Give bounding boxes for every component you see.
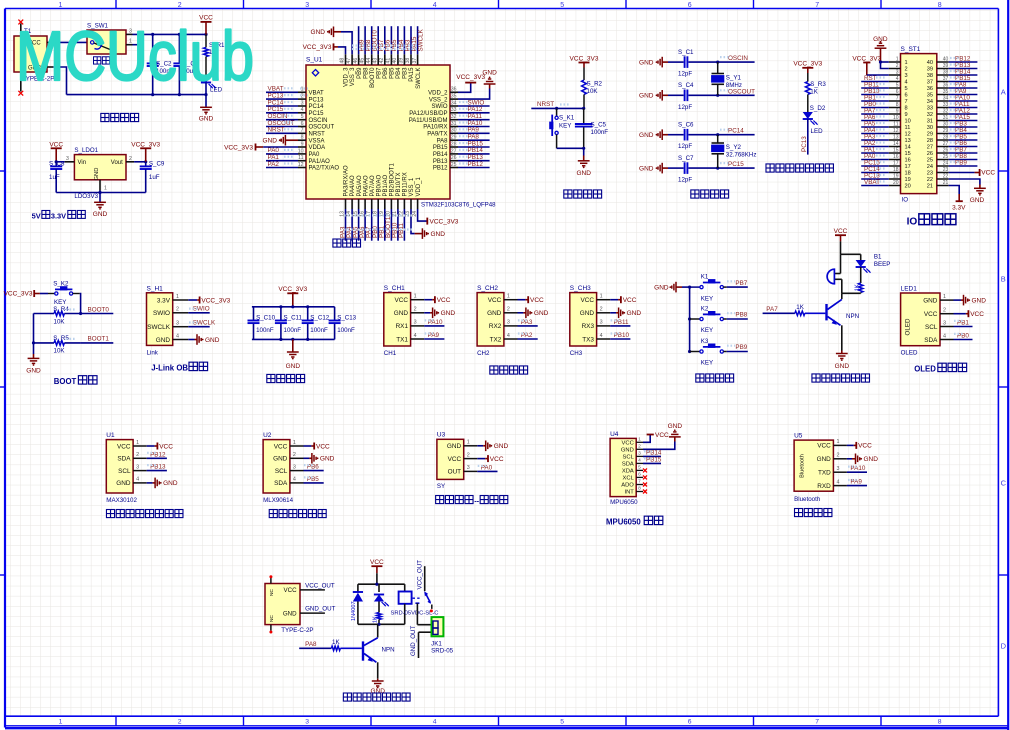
svg-text:GND: GND [431, 231, 446, 238]
svg-text:7: 7 [905, 99, 908, 105]
svg-text:22: 22 [943, 174, 949, 180]
svg-text:34: 34 [943, 96, 949, 102]
ground flag at LED1 pin 1 [954, 299, 962, 301]
svg-text:1K: 1K [810, 89, 818, 96]
wire and net label PC14 [718, 134, 755, 136]
svg-text:4: 4 [905, 80, 908, 86]
wire and net label BOOT0 at S_U1 top [371, 26, 373, 54]
wire JK1 pin2 GND_OUT [419, 631, 434, 633]
svg-text:MPU6050: MPU6050 [606, 518, 641, 527]
svg-text:33: 33 [943, 102, 949, 108]
svg-text:LDO3V3: LDO3V3 [74, 193, 98, 200]
svg-text:VCC_3V3: VCC_3V3 [224, 144, 253, 151]
pin 39 of S_ST1 [937, 68, 949, 70]
power flag VCC_3V3 at S_U1 pin 36 VDD_2 [458, 83, 471, 93]
svg-text:1: 1 [293, 440, 296, 446]
pin 18 of S_ST1 [889, 172, 901, 174]
mcu S_U1 body STM32F103C8T6 [306, 65, 450, 199]
wire relay top node [358, 583, 405, 585]
svg-text:4: 4 [414, 333, 417, 339]
svg-text:GND: GND [199, 116, 214, 123]
svg-text:29: 29 [451, 135, 457, 141]
svg-text:19: 19 [905, 177, 911, 183]
svg-text:RXD: RXD [817, 483, 831, 490]
pin 3 RX2 of S_CH2 [504, 325, 518, 327]
svg-text:PB7: PB7 [376, 67, 382, 79]
svg-text:3: 3 [837, 466, 840, 472]
svg-text:5: 5 [301, 114, 304, 120]
svg-text:VBAT: VBAT [864, 179, 880, 186]
svg-text:100nF: 100nF [256, 327, 274, 334]
svg-text:3: 3 [305, 2, 309, 9]
svg-text:XCL: XCL [623, 475, 635, 481]
pin 1 GND of LED1 [940, 299, 954, 301]
svg-text:PC14: PC14 [309, 104, 325, 110]
pin 3 OUT of U3 [464, 470, 478, 472]
svg-text:9: 9 [301, 141, 304, 147]
svg-text:48: 48 [340, 58, 346, 64]
svg-text:6: 6 [638, 472, 641, 478]
wire and net label PC15 at S_ST1 left [861, 165, 889, 167]
svg-text:38: 38 [405, 58, 411, 64]
ground flag at S_CH2 pin 2 [518, 312, 524, 314]
svg-text:--: -- [474, 497, 479, 506]
svg-text:INT: INT [624, 490, 634, 496]
wire and net label PA7 at S_U1 bottom [371, 209, 373, 241]
svg-text:VDD_2: VDD_2 [428, 91, 448, 97]
wire and net label PB1 at S_ST1 left [861, 100, 889, 102]
wire and net label PB6 at U2 pin 3 [304, 470, 324, 472]
wire and net label BOOT0 [81, 313, 114, 315]
svg-text:CH3: CH3 [570, 350, 583, 357]
wire and net label PB14 at U4 [643, 455, 661, 457]
pin 20 PB2/BOOT1 of S_U1 bottom [390, 199, 392, 209]
caption heart rate module [106, 510, 114, 518]
caption sound light alarm [812, 374, 820, 382]
wire and net label PB11 at S_ST1 left [861, 87, 889, 89]
svg-text:17: 17 [893, 161, 899, 167]
svg-text:GND_OUT: GND_OUT [305, 606, 335, 613]
svg-text:PB15: PB15 [433, 145, 448, 151]
svg-text:S_K2: S_K2 [53, 280, 69, 287]
pin 4 SDA of LED1 [940, 339, 954, 341]
svg-text:39: 39 [927, 67, 933, 73]
wire VCC to LDO Vin [56, 161, 64, 163]
connector U1 body [106, 440, 133, 493]
svg-text:13: 13 [905, 138, 911, 144]
svg-text:34: 34 [927, 99, 933, 105]
pin NC top of S_T1 [20, 24, 22, 37]
svg-text:3.3V: 3.3V [51, 211, 66, 220]
capacitor S_C3 [178, 34, 180, 63]
pin 2 GND of U4 [636, 448, 643, 450]
svg-text:MLX90614: MLX90614 [263, 497, 293, 504]
wire and net label PA10 at U5 [847, 471, 867, 473]
wire and net label PA1 at S_ST1 left [861, 152, 889, 154]
svg-text:NPN: NPN [846, 313, 859, 320]
ground flag at S_CH1 pin 2 [424, 312, 430, 314]
svg-text:41: 41 [386, 58, 392, 64]
wire and net label NRST at S_U1 left [266, 132, 298, 134]
svg-text:GND: GND [94, 168, 100, 181]
pin 24 of S_ST1 [937, 165, 949, 167]
svg-text:37: 37 [412, 58, 418, 64]
svg-text:GND: GND [441, 310, 456, 317]
svg-text:32: 32 [927, 112, 933, 118]
connector U3 body [437, 439, 464, 479]
pin 10 of S_ST1 [889, 120, 901, 122]
svg-text:S_CH1: S_CH1 [384, 285, 405, 292]
svg-text:1N4007: 1N4007 [351, 601, 357, 621]
svg-text:GND: GND [668, 423, 683, 430]
wire and net label PC13 at S_ST1 left [861, 178, 889, 180]
svg-text:5: 5 [905, 86, 908, 92]
svg-text:8: 8 [301, 135, 304, 141]
svg-text:10K: 10K [587, 88, 599, 95]
svg-text:PB14: PB14 [433, 152, 448, 158]
svg-text:2: 2 [943, 308, 946, 314]
wire and net label PB0 at LED1 [954, 339, 973, 341]
wire and net label PB10 at S_ST1 left [861, 94, 889, 96]
diode D1 1N4007 [357, 584, 359, 592]
pin 4 GND of U1 [133, 482, 147, 484]
svg-text:VCC: VCC [316, 443, 330, 450]
ground flag at U1 pin 4 [147, 482, 153, 484]
svg-text:30: 30 [943, 122, 949, 128]
pin 2 VCC of LED1 [940, 313, 954, 315]
connector S_CH2 body [477, 293, 504, 346]
svg-text:OSCIN: OSCIN [728, 55, 748, 62]
svg-text:BOOT: BOOT [54, 377, 77, 386]
ground flag at S_U1 pin 23 VSS_1 [411, 209, 415, 234]
wire relay NC contact to JK1 [415, 602, 419, 604]
wire and net label PA4 at S_ST1 left [861, 133, 889, 135]
svg-text:1: 1 [905, 60, 908, 66]
svg-text:VCC: VCC [858, 443, 872, 450]
pin 29 PA8 of S_U1 [450, 139, 458, 141]
svg-text:PA2: PA2 [268, 161, 280, 168]
svg-text:VSS_2: VSS_2 [429, 97, 448, 103]
svg-text:VCC_OUT: VCC_OUT [305, 582, 335, 589]
wire S_T1 GND to bottom rail [53, 67, 66, 95]
pin 19 PB1/AO of S_U1 bottom [384, 199, 386, 209]
svg-text:5V: 5V [32, 211, 41, 220]
svg-text:OSCIN: OSCIN [309, 118, 328, 124]
svg-text:7: 7 [638, 479, 641, 485]
wire and net label PA4 at S_U1 bottom [351, 209, 353, 241]
pin 31 PA10/RX of S_U1 [450, 126, 458, 128]
svg-text:PC14: PC14 [728, 128, 744, 135]
svg-text:4: 4 [638, 458, 641, 464]
pin 8 VSSA of S_U1 [298, 139, 306, 141]
wire and net label PA10 at S_ST1 right [949, 100, 978, 102]
pin 27 PB14 of S_U1 [450, 153, 458, 155]
pin 40 of S_ST1 [937, 61, 949, 63]
pin 3 SCL of LED1 [940, 326, 954, 328]
svg-text:2: 2 [136, 452, 139, 458]
pin 3 RX1 of S_CH1 [411, 325, 425, 327]
svg-text:SWCLK: SWCLK [417, 28, 424, 51]
pin 1 VCC of S_CH1 [411, 299, 425, 301]
resistor S_R2 [582, 80, 587, 95]
svg-text:31: 31 [943, 115, 949, 121]
wire and net label PA10 at S_U1 right [458, 126, 490, 128]
svg-text:12pF: 12pF [678, 71, 692, 78]
pin 46 PB9 of S_U1 top [358, 54, 360, 65]
svg-text:SDA: SDA [622, 461, 634, 467]
wire and net label PB10 at S_U1 bottom [397, 209, 399, 241]
svg-text:GND: GND [627, 310, 642, 317]
svg-text:GND: GND [580, 310, 595, 317]
capacitor S_C11 100nF [280, 307, 282, 320]
svg-text:Link: Link [147, 349, 159, 356]
pin 1 of S_LDO1 [99, 180, 101, 191]
svg-text:35: 35 [927, 93, 933, 99]
pin 1 of S_ST1 [889, 61, 901, 63]
pin 14 of S_ST1 [889, 146, 901, 148]
pin 18 PB0/AO of S_U1 bottom [377, 199, 379, 209]
wire and net label PA3 at S_U1 bottom [345, 209, 347, 241]
pin 7 ADO of U4 [636, 484, 643, 486]
svg-text:VCC: VCC [981, 170, 995, 177]
svg-text:33: 33 [927, 106, 933, 112]
svg-text:3: 3 [414, 320, 417, 326]
svg-text:7: 7 [896, 96, 899, 102]
svg-text:3: 3 [943, 320, 946, 326]
pin 33 of S_ST1 [937, 107, 949, 109]
caption reset circuit [564, 190, 572, 198]
pin 26 PB13 of S_U1 [450, 160, 458, 162]
svg-text:S_C12: S_C12 [310, 315, 329, 322]
svg-text:13: 13 [893, 135, 899, 141]
wire S_T1 VCC to switch [53, 41, 87, 43]
resistor S_R4 [34, 313, 55, 315]
pin 2 PC13 of S_U1 [298, 98, 306, 100]
svg-text:KEY: KEY [701, 360, 713, 367]
wire and net label PB0 at S_ST1 left [861, 107, 889, 109]
wire and net label PA5 at S_ST1 left [861, 126, 889, 128]
svg-text:VCC_3V3: VCC_3V3 [4, 291, 33, 298]
pin 37 of S_ST1 [937, 81, 949, 83]
pin 45 PB8 of S_U1 top [364, 54, 366, 65]
svg-text:U5: U5 [794, 433, 803, 440]
svg-text:VCC_3V3: VCC_3V3 [430, 218, 459, 225]
svg-text:5: 5 [638, 465, 641, 471]
svg-text:S_CH2: S_CH2 [477, 285, 498, 292]
pin 4 of S_ST1 [889, 81, 901, 83]
wire and net label PB3 at S_ST1 right [949, 126, 978, 128]
svg-text:NPN: NPN [382, 647, 395, 654]
svg-text:BOOT1: BOOT1 [88, 336, 110, 343]
svg-text:S_H1: S_H1 [147, 285, 164, 292]
pin 2 GND of U2 [290, 457, 304, 459]
wire and net label PA1 at S_U1 left [266, 160, 298, 162]
power flag VCC at U4 pin 1 [643, 435, 650, 443]
wire and net label PB9 at S_ST1 right [949, 165, 978, 167]
pin 4 TX3 of S_CH3 [597, 338, 611, 340]
pin 47 VSS_3 of S_U1 top [351, 54, 353, 65]
svg-text:GND: GND [163, 480, 178, 487]
svg-text:23: 23 [943, 167, 949, 173]
svg-text:4: 4 [293, 477, 296, 483]
pin 3 SCL of U1 [133, 470, 147, 472]
svg-text:NRST: NRST [309, 132, 326, 138]
svg-text:CH2: CH2 [477, 350, 490, 357]
svg-text:2: 2 [129, 156, 132, 162]
svg-text:35: 35 [943, 89, 949, 95]
wire and net label PA11 at S_U1 right [458, 119, 490, 121]
svg-text:GND: GND [283, 610, 297, 617]
svg-text:VCC: VCC [623, 297, 637, 304]
svg-text:VCC: VCC [49, 141, 63, 148]
pin 39 PB3 of S_U1 top [403, 54, 405, 65]
pin 15 of S_ST1 [889, 152, 901, 154]
pin 7 of S_ST1 [889, 100, 901, 102]
pin NC bottom of S_T1 [20, 72, 22, 92]
wire and net label PC15 at S_U1 left [266, 112, 298, 114]
svg-text:SY: SY [437, 483, 445, 490]
ground symbol LDO [94, 201, 106, 203]
svg-text:4: 4 [433, 2, 437, 9]
svg-text:STM32F103C8T6_LQFP48: STM32F103C8T6_LQFP48 [421, 202, 496, 209]
svg-text:PB11/RX: PB11/RX [403, 172, 409, 196]
pin 3 of S_SW1 [126, 33, 133, 35]
pin 1 of S_SW1 [126, 44, 133, 46]
wire and net label PA0 at U3 pin 3 [477, 470, 497, 472]
pin 2 SWIO of S_H1 [173, 312, 189, 314]
svg-text:21: 21 [927, 184, 933, 190]
junction dots top rail [151, 33, 154, 36]
svg-text:1: 1 [600, 294, 603, 300]
svg-text:1: 1 [136, 440, 139, 446]
wire and net label PB10 at S_CH3 pin 4 [610, 338, 630, 340]
ground symbol at S_U1 pin 35 VSS_2 [458, 89, 490, 100]
svg-text:4: 4 [600, 333, 603, 339]
svg-text:2: 2 [507, 307, 510, 313]
svg-text:GND: GND [263, 137, 278, 144]
svg-text:VCC: VCC [159, 443, 173, 450]
power flag VCC at U3 pin 2 [477, 458, 485, 460]
wire and net label PC15 [718, 167, 755, 169]
svg-text:PA10/RX: PA10/RX [423, 125, 447, 131]
wire and net label PB13 at U1 pin 3 [147, 470, 167, 472]
svg-text:PA11/USB/DM: PA11/USB/DM [409, 118, 448, 124]
svg-text:PB9: PB9 [955, 159, 967, 166]
svg-text:1uF: 1uF [49, 174, 60, 181]
svg-text:15: 15 [905, 151, 911, 157]
svg-text:S_C6: S_C6 [678, 122, 694, 129]
svg-text:24: 24 [927, 164, 933, 170]
svg-text:1: 1 [896, 57, 899, 63]
capacitor S_C7 12pF [668, 167, 684, 169]
svg-text:36: 36 [943, 83, 949, 89]
svg-text:GND: GND [639, 165, 654, 172]
svg-text:MCUclub: MCUclub [16, 17, 254, 95]
wire boot ground rail [33, 314, 35, 355]
svg-text:3: 3 [305, 719, 309, 726]
svg-text:VCC: VCC [490, 456, 504, 463]
svg-text:IO: IO [907, 217, 918, 228]
wire and net label OSCIN at S_U1 left [266, 119, 298, 121]
capacitor S_C5 [583, 108, 585, 123]
caption main chip [333, 239, 341, 247]
svg-text:GND: GND [116, 480, 131, 487]
svg-text:RX2: RX2 [489, 323, 502, 330]
svg-text:NC: NC [269, 589, 275, 596]
svg-text:S_C1: S_C1 [678, 49, 694, 56]
svg-text:18: 18 [905, 171, 911, 177]
capacitor S_C4 12pF [668, 94, 684, 96]
svg-text:4: 4 [433, 719, 437, 726]
svg-text:SWIO: SWIO [432, 104, 448, 110]
svg-text:40: 40 [927, 60, 933, 66]
pin 35 of S_ST1 [937, 94, 949, 96]
wire and net label PB5 at S_ST1 right [949, 139, 978, 141]
svg-text:U1: U1 [106, 432, 115, 439]
power flag VCC at U2 pin 1 [304, 445, 312, 447]
wire and net label PB15 at S_U1 right [458, 146, 490, 148]
svg-text:2: 2 [638, 444, 641, 450]
pin 6 of S_ST1 [889, 94, 901, 96]
svg-text:VCC: VCC [437, 297, 451, 304]
svg-text:PA7/AO: PA7/AO [370, 175, 376, 197]
svg-text:PB9: PB9 [735, 344, 747, 351]
pin 27 of S_ST1 [937, 146, 949, 148]
pin 3 TXD of U5 [833, 471, 847, 473]
wire and net label PA12 at S_ST1 right [949, 113, 978, 115]
svg-text:PA9/TX: PA9/TX [427, 132, 447, 138]
svg-text:GND: GND [923, 297, 938, 304]
svg-text:1: 1 [837, 439, 840, 445]
pin 12 of S_ST1 [889, 133, 901, 135]
svg-text:1K: 1K [854, 284, 860, 291]
svg-text:PA5/AO: PA5/AO [357, 175, 363, 197]
pin 31 of S_ST1 [937, 120, 949, 122]
svg-text:RX3: RX3 [582, 323, 595, 330]
wire and net label PB1 at LED1 [954, 326, 973, 328]
wire and net label PA9 at S_ST1 right [949, 94, 978, 96]
pin 36 VDD_2 of S_U1 [450, 91, 458, 93]
wire reset to ground [583, 148, 585, 155]
wire and net label PB13 at S_ST1 right [949, 68, 978, 70]
regulator S_LDO1 body [74, 155, 126, 180]
svg-text:32.768KHz: 32.768KHz [726, 151, 757, 158]
svg-text:44: 44 [366, 58, 372, 64]
display LED1 OLED body [901, 293, 940, 346]
svg-text:26: 26 [927, 151, 933, 157]
svg-text:Vout: Vout [111, 160, 123, 166]
relay actuation dashed line [413, 597, 422, 599]
svg-text:PA8: PA8 [437, 138, 449, 144]
svg-text:TXD: TXD [818, 470, 831, 477]
svg-text:39: 39 [943, 63, 949, 69]
power flag VCC_3V3 at S_U1 pin 24 VDD_1 [418, 209, 427, 221]
pin 38 of S_ST1 [937, 74, 949, 76]
wire LDO Vout to VCC_3V3 [134, 161, 146, 163]
relay coil K1 SRD-05VDC-SL-C [404, 584, 406, 591]
pin 37 SWCLK of S_U1 top [417, 54, 419, 65]
power flag VCC at S_ST1 pin 23 [949, 172, 975, 174]
svg-text:3: 3 [600, 320, 603, 326]
pin 12 PA2/TX/AO of S_U1 [298, 167, 306, 169]
svg-text:GND: GND [93, 211, 108, 218]
wire and net label PB5 at U2 pin 4 [304, 482, 324, 484]
switch S_SW1 body [87, 30, 126, 54]
connector TYPE-C-2P relay body [265, 584, 300, 625]
svg-text:2: 2 [176, 307, 179, 313]
svg-text:3.3V: 3.3V [157, 297, 171, 304]
capacitor S_C12 100nF [307, 307, 309, 320]
